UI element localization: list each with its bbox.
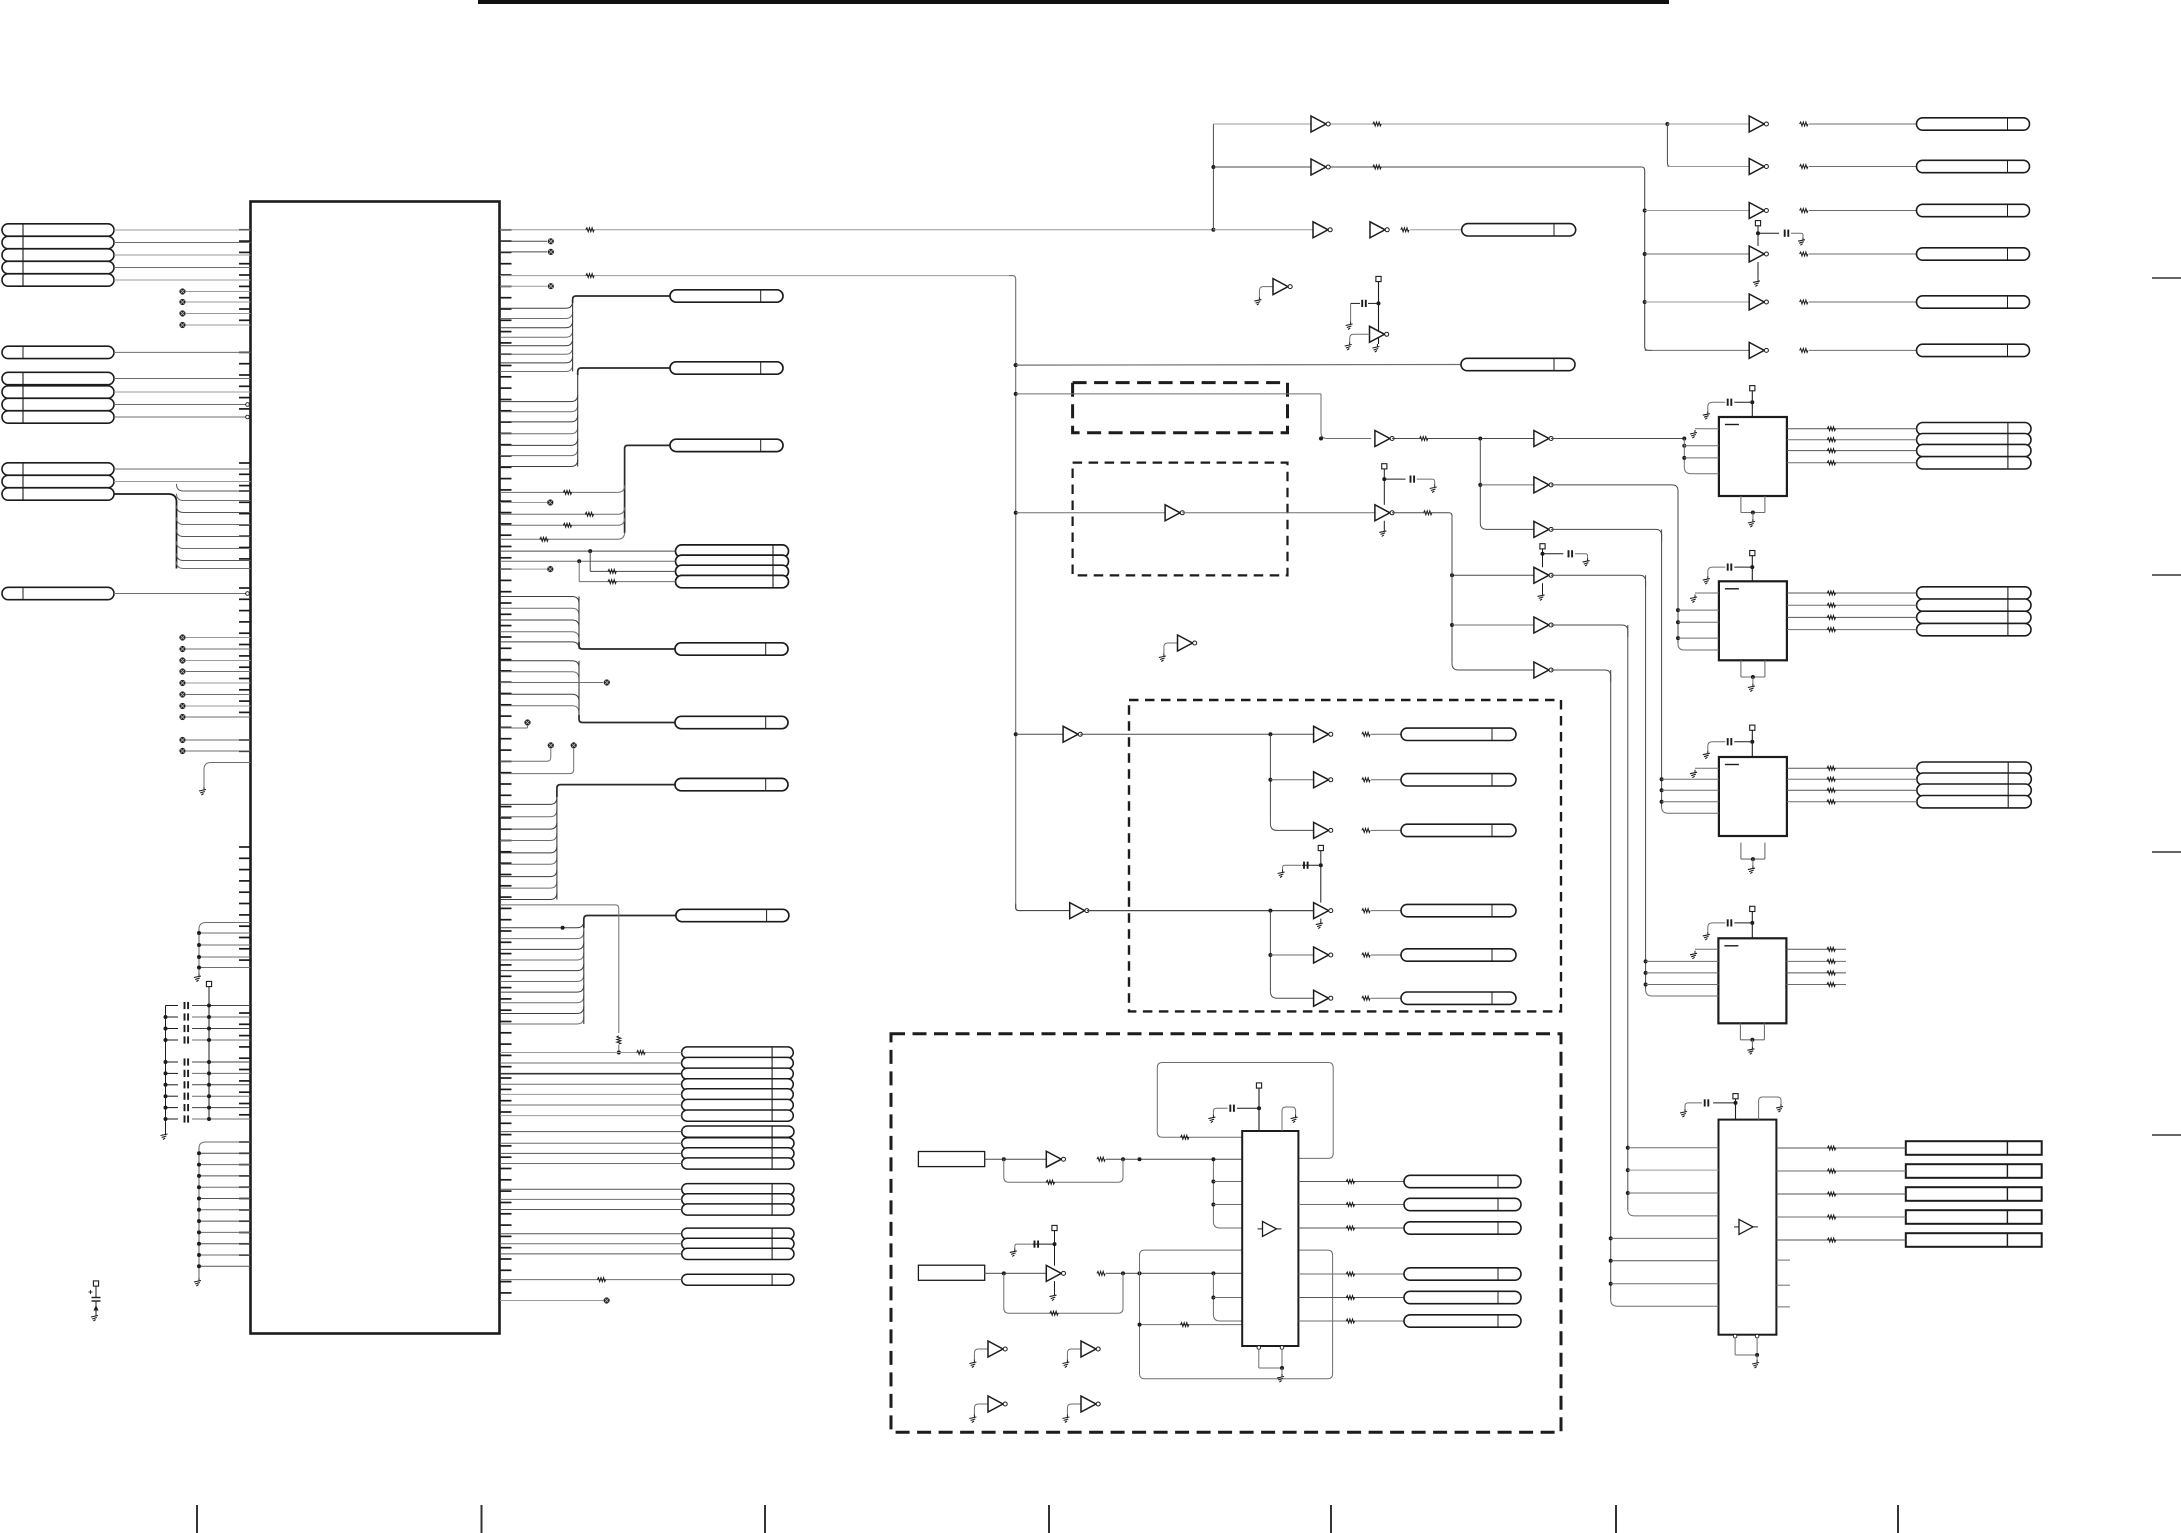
resistor R35 [1346, 1296, 1354, 1300]
buffer U11 [1749, 116, 1768, 132]
resistor R11 [1800, 122, 1808, 126]
wire row127 buf/res [1213, 123, 1667, 125]
ground G-C3 [1690, 770, 1697, 778]
wire out W17 [1298, 1297, 1404, 1299]
junction fan2 r5 [1268, 953, 1272, 957]
bundle fan to CN11 [500, 301, 573, 371]
buffer U32 [1063, 726, 1082, 742]
buffer U10 [1311, 116, 1330, 132]
buffer U14 [1749, 246, 1768, 262]
bus U52 inputs [1660, 529, 1719, 813]
resistor R24 [1362, 909, 1370, 913]
resistor R511 [1827, 788, 1835, 792]
resistor R10 [597, 1278, 605, 1282]
ground G-C4 [1690, 951, 1697, 959]
no-connect NCR8 [548, 742, 554, 748]
bus tap lower [1213, 1273, 1242, 1321]
wire W5 [1809, 301, 1917, 303]
ground G-M5 [1583, 558, 1590, 566]
wire N2 out [985, 1271, 1047, 1275]
bundle fan to CN21 [500, 921, 584, 1024]
buffer U22 [1165, 505, 1184, 521]
wire out W18 [1298, 1320, 1404, 1322]
wire fan2 r5 [1270, 954, 1313, 956]
wire buffer out elbow [1551, 575, 1646, 587]
resistor R30 [1097, 1157, 1105, 1161]
connector flag CN40 [1461, 358, 1575, 370]
connector flag CNB6 [1401, 992, 1516, 1004]
ground G-B1 [1010, 1248, 1017, 1256]
pad P8 with capacitor C17 [1213, 1083, 1261, 1131]
resistor R21 [1362, 732, 1370, 736]
resistor R13 [1800, 209, 1808, 213]
ground G-1 [1254, 297, 1261, 305]
ground G-M1 [1346, 322, 1353, 330]
ground G-C7 [1752, 1360, 1759, 1368]
wire U51 out W26 [1787, 629, 1917, 631]
resistor R64 [1827, 1215, 1835, 1219]
feedback loop F2 [1004, 1273, 1123, 1313]
pad P9 with capacitor C18 [1708, 386, 1755, 417]
connector flag CNB3 [1401, 824, 1516, 836]
wire buffer out elbow [1551, 625, 1628, 637]
ground G-L4 [194, 1278, 201, 1286]
terminal pad P1 [206, 981, 211, 986]
dashed option box B3 [1129, 700, 1561, 1011]
resistor R4 [540, 537, 548, 541]
dashed option box B2 [1073, 463, 1288, 576]
wire chain2 row [1452, 574, 1534, 576]
buffer U24 [1534, 567, 1553, 583]
wire W12 [1371, 997, 1401, 999]
no-connect NCR5 [547, 499, 553, 505]
wire U54 out W36 [1776, 1170, 1905, 1172]
connectors CN52 (4 flags) [1917, 762, 2031, 808]
wire stack row1 [500, 549, 676, 553]
buffer U25 [1534, 617, 1553, 633]
wire net ROW1 [500, 229, 1213, 231]
wire W8 [1371, 779, 1401, 781]
wires CN29-CN32 [500, 1132, 682, 1164]
wire to CN41 [1410, 229, 1462, 231]
wire U50 out W22 [1787, 462, 1917, 464]
ground G-L5 [91, 1313, 98, 1321]
page column tick 7 [1897, 1505, 1899, 1533]
resistor R2 [586, 274, 594, 278]
bus tap upper [1211, 1157, 1242, 1228]
IC U51 [1719, 581, 1787, 660]
connector flag CN2 [2, 346, 114, 358]
resistor R31 [1346, 1180, 1354, 1184]
resistor R21 [1424, 511, 1432, 515]
terminal pad P2 with capacitor C11 [89, 1281, 101, 1313]
resistor R15 [1800, 300, 1808, 304]
connector flag CN41 [1462, 224, 1576, 236]
ground G-9 [1703, 576, 1710, 584]
resistor R26 [1362, 996, 1370, 1000]
pad P10 with capacitor C19 [1708, 551, 1755, 582]
buffer U18 (spare) [1259, 279, 1292, 298]
connector flag CNB10 [1404, 1268, 1521, 1280]
IC U42 (driver) [1242, 1131, 1298, 1346]
buffer U35 [1314, 947, 1333, 963]
ground G-M4b [1379, 528, 1386, 536]
pad P5 with capacitor C14 [1540, 544, 1588, 568]
bundle fan to CN18 [500, 597, 579, 649]
capacitor C5 [164, 1058, 251, 1065]
ground G-B3 [1208, 1115, 1215, 1123]
wire W4 [1809, 253, 1917, 255]
pad P7 with capacitor C16 [1015, 1225, 1057, 1265]
wire branch row4 [579, 561, 675, 581]
resistor R513 [1827, 947, 1835, 951]
pad P4b with capacitor C23 [1382, 464, 1435, 505]
resistor R510 [1827, 777, 1835, 781]
wire U52 out W30 [1787, 801, 1917, 803]
connector flag CNT1 [1917, 118, 2030, 130]
connector flag CN10 [2, 587, 114, 599]
wire net to CN41 [1213, 229, 1313, 231]
wire resistor tap [500, 518, 625, 525]
ground G-L2 [194, 974, 201, 982]
no-connect NCR4 [547, 566, 553, 572]
bus wire vertical x1016 [1009, 276, 1022, 911]
resistor R58 [1827, 628, 1835, 632]
resistor R34 [1181, 1135, 1189, 1139]
resistor R2 [585, 512, 593, 516]
connector flag CNB5 [1401, 949, 1516, 961]
resistor R52 [1827, 438, 1835, 442]
resistor R59 [1827, 766, 1835, 770]
capacitor C9 [164, 1104, 251, 1111]
no-connect NCR2 [548, 249, 554, 255]
net label box N1 [918, 1152, 984, 1167]
ground bus wires (left group A) [197, 923, 251, 974]
connector flag CN12 [670, 362, 783, 374]
no-connect NCR10 [604, 1297, 610, 1303]
buffer U33 [1314, 822, 1333, 838]
buffer U36 [1314, 990, 1333, 1006]
wire chain1 out [1392, 438, 1534, 440]
capacitor C8 [164, 1093, 251, 1100]
wire out W13 [1298, 1181, 1404, 1183]
wire chain2 elbow [1392, 513, 1452, 519]
wire through B1 [1016, 393, 1321, 395]
page row tick 1 [2152, 277, 2181, 279]
page row tick 2 [2152, 574, 2181, 576]
wire net ROW2 [500, 275, 1009, 277]
wire U51 out W24 [1787, 604, 1917, 606]
wire vA row2 [1480, 484, 1534, 486]
wire tap [1213, 1181, 1242, 1183]
wire fan1 r2 [1270, 779, 1313, 781]
wire CN12 feed [578, 368, 670, 375]
resistor R53 [1827, 449, 1835, 453]
wire to flag row 5 [500, 1093, 682, 1095]
resistor R8 [608, 580, 616, 584]
connectors CN36-CN38 [682, 1228, 794, 1259]
wire pad through U41 [1054, 1281, 1056, 1293]
ground G-M6 [1538, 592, 1545, 600]
ground G-B4 [1291, 1115, 1298, 1123]
ground G-M7 [1278, 870, 1285, 878]
page column tick 2 [481, 1505, 483, 1533]
wire stub W41 [1776, 1284, 1790, 1286]
bus U54 inputs lower [1609, 670, 1719, 1306]
capacitor C6 [164, 1070, 251, 1077]
bus fan1 [1270, 734, 1313, 830]
junction tap [1211, 1203, 1215, 1207]
no-connect NCR7 [524, 719, 530, 725]
junction x1016 stB [1014, 363, 1018, 367]
buffer U32 [1314, 772, 1333, 788]
ground G-C1 [1690, 430, 1697, 438]
capacitor C3 [164, 1025, 251, 1032]
resistor R61 [1827, 1146, 1835, 1150]
junction fan2 [1268, 909, 1272, 913]
wire CN11 feed [573, 296, 670, 303]
IC U52 [1719, 757, 1787, 836]
connector flag CNT6 [1917, 344, 2030, 356]
wire W2 [1809, 166, 1917, 168]
wires CN7-CN8 to U1 [114, 469, 251, 482]
connectors CN33-CN35 [682, 1184, 794, 1216]
wire U54 out W35 [1776, 1147, 1905, 1149]
connector flag CNT5 [1917, 296, 2030, 308]
connector flag CNB4 [1401, 904, 1516, 916]
feedback loop F1 [1004, 1159, 1123, 1182]
buffer U23 [1534, 521, 1553, 537]
capacitor C1 [166, 1002, 251, 1009]
resistor R23 [1362, 828, 1370, 832]
ground G-5 [969, 1415, 976, 1423]
junction vA row2 [1478, 483, 1482, 487]
feedback loop F4 (bottom) [1140, 1250, 1333, 1379]
buffer U19 [1370, 326, 1389, 342]
junction colbus [1643, 209, 1647, 213]
wire U50 out W21 [1787, 450, 1917, 452]
wire buffer out elbow [1551, 670, 1611, 682]
wires CN3-CN6 to U1 [114, 379, 251, 419]
capacitor C7 [164, 1081, 251, 1088]
wire vB row5 [1452, 624, 1534, 626]
resistor R63 [1827, 1192, 1835, 1196]
no-connect NCR9 [571, 742, 577, 748]
wires NC5-NC12 to U1 [186, 638, 251, 718]
wire branch row3 [590, 551, 675, 571]
wire P1 vertical and cap bus [166, 987, 210, 1132]
wire CN10 open end [114, 592, 249, 596]
ground G-8 [1748, 519, 1755, 527]
pad P4 with capacitor C13 [1351, 276, 1382, 344]
IC U54 bottom pins [1733, 1334, 1759, 1357]
wire to flag row 2 [500, 1062, 682, 1064]
resistor R20 [1420, 437, 1428, 441]
buffer U26 [1534, 662, 1553, 678]
wire U52 pin1 gnd [1695, 767, 1719, 769]
resistor R51 [1827, 427, 1835, 431]
wire chain2 [1106, 1271, 1242, 1275]
wire buffer out elbow [1551, 485, 1678, 497]
net boxes NB1-NB5 [1906, 1141, 2042, 1247]
no-connect points NC5-NC12 [179, 634, 185, 720]
resistor R25 [1362, 953, 1370, 957]
buffer U21 [1370, 222, 1389, 238]
buffer U20 [1313, 222, 1332, 238]
resistor R56 [1827, 603, 1835, 607]
connector flag CN13 [670, 439, 783, 451]
pad P13 with capacitor C22 [1685, 1094, 1738, 1120]
connector flag CN11 [670, 290, 783, 302]
wire elbow rowB [1667, 124, 1674, 167]
wire nc stub [500, 502, 547, 504]
wire nc elbow [500, 726, 528, 728]
connectors CN7-CN9 [2, 463, 114, 500]
junction chain1 vA [1478, 437, 1482, 441]
capacitor C2 [164, 1013, 251, 1020]
wire CN13 feed [625, 445, 670, 533]
connector flag CNB7 [1404, 1175, 1521, 1187]
buffer U12 [1749, 159, 1768, 175]
junction vB row5 [1450, 623, 1454, 627]
page column tick 4 [1048, 1505, 1050, 1533]
wire nc stub [500, 568, 547, 570]
wires NC1-NC4 to U1 [186, 292, 251, 326]
no-connect points NC13-NC14 [179, 737, 185, 754]
page row tick 4 [2152, 1134, 2181, 1136]
wire nc stub [500, 240, 547, 242]
IC U50 [1719, 417, 1787, 496]
no-connect NCR1 [548, 238, 554, 244]
wire rowA to buffer [1667, 123, 1749, 125]
wire U54 out W37 [1776, 1193, 1905, 1195]
ground G-C6 [1776, 1104, 1783, 1112]
connectors CN22-CN28 (7 flags) [682, 1047, 794, 1121]
wire W9 [1371, 829, 1401, 831]
buffer U40 [1046, 1151, 1065, 1167]
junction chain1 [1319, 437, 1323, 441]
bus U51 inputs [1676, 496, 1719, 650]
IC U52 ground strap [1741, 843, 1765, 866]
wire tap [1213, 1204, 1242, 1206]
pad P11 with capacitor C20 [1708, 725, 1755, 757]
wire out W16 [1298, 1273, 1404, 1275]
connector flag CN20 [675, 778, 788, 790]
wire rowF to buffer [1645, 349, 1750, 351]
resistor R57 [1827, 615, 1835, 619]
IC U54 (driver) [1719, 1120, 1777, 1335]
pad P12 with capacitor C21 [1708, 906, 1755, 938]
resistor R62 [1827, 1169, 1835, 1173]
connector flag CNB11 [1404, 1291, 1521, 1303]
resistor R33 [1050, 1311, 1058, 1315]
IC U1 left pin stubs [239, 230, 251, 1255]
wire B2 out [1182, 512, 1375, 514]
wire CN18 feed [579, 642, 675, 649]
buffer U11 [1311, 159, 1330, 175]
ground G-12 [1748, 866, 1755, 874]
wire pad through buffer D [1757, 262, 1759, 278]
wire nc elbow [500, 749, 551, 761]
resistor R3 [563, 523, 571, 527]
wire W11 [1371, 954, 1401, 956]
resistor R32 [1346, 1203, 1354, 1207]
resistor R34 [1346, 1272, 1354, 1276]
pad P6 with capacitor C15 [1283, 845, 1324, 902]
page column tick 3 [764, 1505, 766, 1533]
buffer U31 (spare) [1164, 635, 1197, 654]
resistor R32 [1097, 1271, 1105, 1275]
junction fan1 r2 [1268, 778, 1272, 782]
ground G-B2 [1050, 1293, 1057, 1301]
junction rowA [1665, 122, 1669, 126]
wire rowB to buffer [1638, 167, 1652, 350]
ground G-L3 [161, 1132, 168, 1140]
resistor R11 [1373, 122, 1381, 126]
wire N1 out [985, 1157, 1047, 1161]
IC U1 right pin stubs [500, 230, 512, 1293]
ground G-4 [1062, 1360, 1069, 1368]
wire U54 out W39 [1776, 1239, 1905, 1241]
resistor R36 [1346, 1319, 1354, 1323]
resistor R512 [1827, 800, 1835, 804]
wire U54 top stub [1759, 1097, 1781, 1120]
wire x1016 to U32 [1016, 733, 1063, 735]
wire CN20 feed [557, 785, 675, 797]
buffer U31 [1314, 726, 1333, 742]
buffer U45 (spare) [974, 1396, 1007, 1415]
wires CN1 to U1 [114, 230, 251, 280]
IC U51 ground strap [1741, 661, 1765, 684]
junction fan1 [1268, 732, 1272, 736]
connector flag CNB9 [1404, 1222, 1521, 1234]
wire out W15 [1298, 1227, 1404, 1229]
resistor R65 [1827, 1238, 1835, 1242]
IC U53 [1718, 938, 1786, 1023]
wire U50 pin1 gnd [1695, 428, 1719, 430]
junction chain2 vB [1450, 573, 1454, 577]
wire to flag row 4 [500, 1083, 682, 1085]
wire U50 out W19 [1787, 428, 1917, 430]
wire out W14 [1298, 1204, 1404, 1206]
ground G-7 [1703, 411, 1710, 419]
page column tick 5 [1330, 1505, 1332, 1533]
wire CN39 [500, 1279, 682, 1281]
ground G-3 [969, 1360, 976, 1368]
wire U53 out W33 [1786, 972, 1846, 974]
wire stack row2 [500, 559, 676, 563]
wire W1 [1809, 123, 1917, 125]
resistor R55 [1827, 591, 1835, 595]
ground G-T1 [1798, 237, 1805, 245]
connectors CN3-CN6 [2, 372, 114, 423]
resistor R514 [1827, 959, 1835, 963]
IC U53 ground strap [1740, 1023, 1764, 1046]
buffer U23 [1375, 431, 1394, 447]
IC U42 bottom pins [1257, 1346, 1284, 1374]
title underline bar [478, 0, 1669, 4]
connector flag CNB1 [1401, 728, 1516, 740]
ground G-2 [1159, 654, 1166, 662]
wire U52 out W28 [1787, 778, 1917, 780]
dashed option box B1 [1073, 383, 1288, 433]
connector flag CNB8 [1404, 1198, 1521, 1210]
ground G-M8 [1316, 921, 1323, 929]
wire rowD to buffer [1645, 253, 1750, 255]
connectors CN14-CN17 (4 flags) [676, 545, 789, 588]
wire pad through buffer [1542, 583, 1544, 592]
bus fan2 [1270, 911, 1313, 999]
